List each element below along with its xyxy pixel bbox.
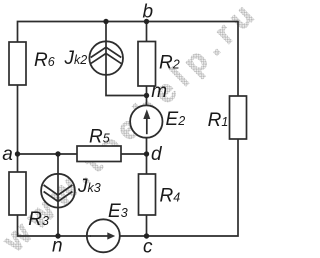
svg-text:a: a (2, 144, 13, 165)
svg-text:E2: E2 (166, 109, 186, 130)
svg-text:R6: R6 (34, 50, 55, 71)
svg-text:E3: E3 (108, 201, 128, 222)
svg-text:d: d (151, 144, 163, 165)
svg-text:m: m (151, 81, 167, 102)
svg-text:R4: R4 (160, 186, 181, 207)
svg-text:c: c (143, 237, 153, 258)
svg-text:n: n (52, 236, 63, 257)
svg-text:Jk2: Jk2 (64, 48, 88, 69)
svg-text:R1: R1 (208, 110, 229, 131)
svg-text:b: b (143, 2, 154, 23)
